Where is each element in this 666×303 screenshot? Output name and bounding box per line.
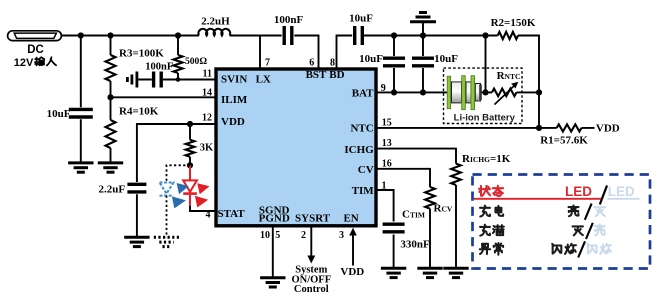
svg-text:Control: Control: [294, 284, 329, 295]
svg-text:NTC: NTC: [350, 123, 373, 135]
svg-text:RNTC: RNTC: [497, 70, 521, 82]
svg-text:CTIM: CTIM: [402, 209, 425, 221]
svg-text:12: 12: [202, 113, 212, 124]
svg-text:2.2uH: 2.2uH: [201, 16, 230, 28]
svg-text:PGND: PGND: [259, 213, 290, 225]
svg-text:14: 14: [202, 88, 212, 99]
svg-text:6: 6: [309, 58, 314, 69]
svg-text:VDD: VDD: [340, 266, 364, 278]
svg-text:LX: LX: [256, 74, 271, 86]
svg-text:5: 5: [275, 230, 280, 241]
svg-text:10uF: 10uF: [47, 108, 71, 120]
svg-text:R2=150K: R2=150K: [491, 17, 536, 29]
svg-text:500Ω: 500Ω: [185, 56, 207, 67]
svg-text:3: 3: [339, 230, 344, 241]
svg-text:R4=10K: R4=10K: [119, 106, 159, 118]
svg-text:SYSRT: SYSRT: [295, 213, 331, 225]
svg-text:10uF: 10uF: [434, 53, 458, 65]
svg-text:7: 7: [265, 58, 270, 69]
svg-text:10: 10: [260, 230, 270, 241]
svg-text:9: 9: [381, 83, 386, 94]
svg-text:15: 15: [382, 117, 392, 128]
svg-text:STAT: STAT: [218, 208, 246, 220]
svg-text:DC: DC: [27, 44, 44, 56]
svg-text:100nF: 100nF: [145, 62, 173, 73]
svg-text:ILIM: ILIM: [221, 94, 248, 106]
svg-text:2.2uF: 2.2uF: [99, 184, 126, 196]
svg-text:8: 8: [330, 58, 335, 69]
svg-text:2: 2: [301, 230, 306, 241]
svg-text:12V: 12V: [14, 57, 34, 69]
svg-text:16: 16: [382, 159, 392, 170]
svg-text:R1=57.6K: R1=57.6K: [540, 135, 588, 147]
svg-text:TIM: TIM: [352, 185, 375, 197]
svg-text:SVIN: SVIN: [221, 74, 247, 86]
svg-text:1: 1: [382, 180, 387, 191]
svg-text:LED: LED: [608, 184, 635, 199]
svg-text:13: 13: [382, 138, 392, 149]
svg-text:BD: BD: [329, 69, 344, 81]
svg-text:ICHG: ICHG: [344, 144, 374, 156]
svg-text:330nF: 330nF: [400, 239, 430, 251]
svg-text:BST: BST: [306, 69, 327, 81]
svg-text:10uF: 10uF: [349, 13, 373, 25]
svg-text:VDD: VDD: [596, 123, 620, 135]
svg-text:R3=100K: R3=100K: [119, 48, 164, 60]
svg-text:RCV: RCV: [434, 203, 453, 215]
svg-text:VDD: VDD: [221, 116, 245, 128]
svg-text:Li-ion Battery: Li-ion Battery: [454, 112, 516, 123]
svg-text:100nF: 100nF: [274, 14, 304, 26]
svg-text:3K: 3K: [200, 143, 214, 154]
svg-text:11: 11: [203, 69, 212, 80]
svg-text:LED: LED: [565, 184, 592, 199]
svg-text:10uF: 10uF: [359, 53, 383, 65]
svg-text:EN: EN: [343, 213, 358, 225]
svg-text:RICHG=1K: RICHG=1K: [462, 153, 511, 165]
svg-text:CV: CV: [358, 164, 374, 176]
svg-text:BAT: BAT: [352, 88, 374, 100]
svg-text:4: 4: [206, 210, 211, 221]
